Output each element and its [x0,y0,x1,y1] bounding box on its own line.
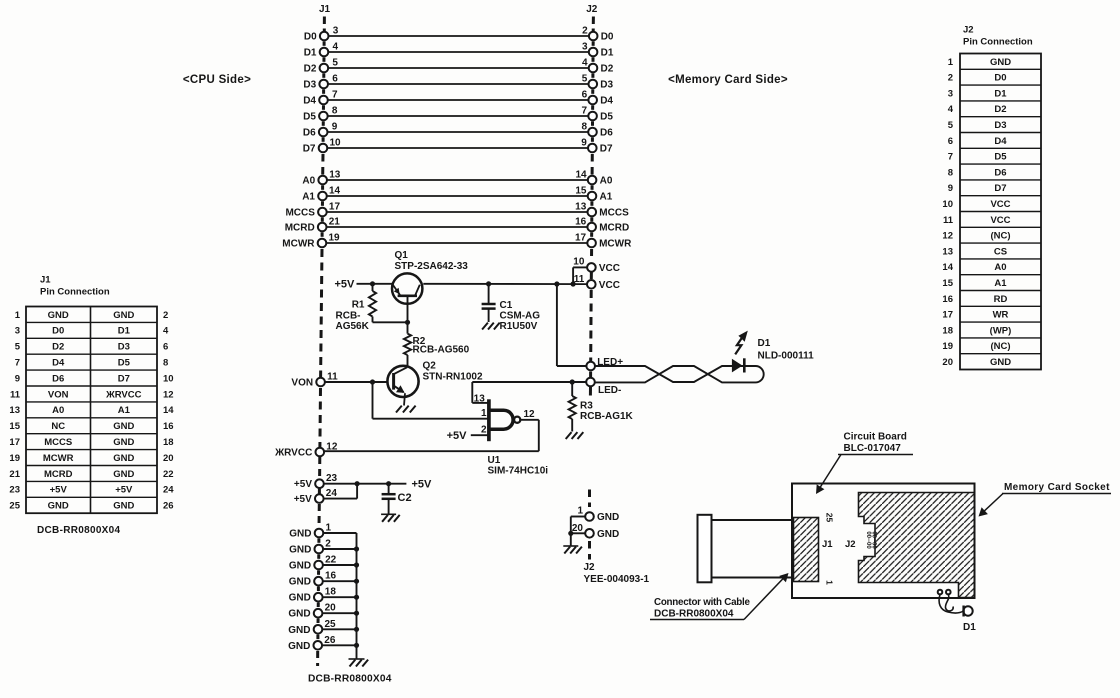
label Memory Card Socket with leader [979,482,1112,517]
svg-text:20: 20 [325,603,337,614]
svg-text:C1: C1 [500,300,513,311]
J2 connector GND pin 1 [571,490,619,547]
svg-text:A0: A0 [52,405,64,416]
svg-text:Memory Card Socket: Memory Card Socket [1004,482,1110,493]
svg-text:A1: A1 [118,405,131,416]
svg-text:6: 6 [163,342,168,353]
J2 dashed connector line segment [591,121,594,126]
J1 dashed connector line segment [322,89,325,94]
svg-text:MCCS: MCCS [44,437,72,448]
svg-text:D5: D5 [600,112,613,123]
J2 dashed connector line segment [592,41,595,46]
svg-text:6: 6 [948,136,953,147]
svg-text:D1: D1 [994,88,1007,99]
svg-text:D7: D7 [303,144,316,155]
wire +5V to U1 pin 2 [471,425,488,436]
svg-text:GND: GND [113,501,134,512]
svg-text:J1: J1 [40,275,51,286]
svg-text:9: 9 [581,138,587,149]
transistor Q2 STN-RN1002 (NPN) [387,361,483,398]
J2 LED+ pin [586,357,623,370]
main rail Q1 to VCC pins [423,281,587,286]
svg-text:8: 8 [581,122,587,133]
svg-text:D1: D1 [118,326,131,337]
svg-text:1: 1 [948,57,954,68]
svg-text:17: 17 [329,202,341,213]
wire D7: J1 pin 10 to J2 pin 9 [303,138,613,155]
svg-text:D5: D5 [994,152,1007,163]
label J2 YEE-004093-1 [584,562,650,585]
capacitor C2 [382,484,412,515]
svg-text:00--00: 00--00 [865,531,871,549]
svg-text:20: 20 [163,453,174,464]
svg-text:22: 22 [325,555,337,566]
svg-text:VON: VON [291,378,313,389]
svg-text:15: 15 [575,186,587,197]
svg-text:D7: D7 [600,144,613,155]
J2 pin connection table [942,25,1041,370]
svg-text:7: 7 [15,358,20,369]
wire MCCS: J1 pin 17 to J2 pin 13 [285,202,629,219]
resistor R2 RCB-AG560 [404,322,470,367]
svg-text:D4: D4 [600,96,613,107]
svg-text:11: 11 [10,389,21,400]
svg-text:12: 12 [942,231,953,242]
J1 dashed connector line segment [322,57,325,62]
svg-text:12: 12 [163,389,174,400]
label 25 (rotated) at board J1 [825,513,835,523]
svg-text:NLD-000111: NLD-000111 [758,350,815,361]
svg-text:11: 11 [574,274,585,285]
J1 dashed segment MCWR-VON [321,249,322,377]
ribbon cable connector bar [698,515,712,583]
svg-text:26: 26 [324,635,336,646]
svg-text:GND: GND [48,501,69,512]
J2 dashed connector line segment [590,217,593,221]
svg-text:13: 13 [575,202,587,213]
J1 pin connection table [9,275,174,514]
svg-text:D0: D0 [994,73,1006,84]
svg-text:8: 8 [332,106,338,117]
svg-text:STP-2SA642-33: STP-2SA642-33 [395,261,469,272]
ground below C2 [381,514,400,522]
svg-text:GND: GND [597,529,619,540]
svg-text:C2: C2 [398,492,412,504]
svg-text:MCRD: MCRD [285,223,315,234]
caption CPU side [183,74,251,86]
svg-text:VCC: VCC [599,280,620,291]
svg-text:25: 25 [825,513,835,523]
J2 single dash between LED pins [589,372,592,378]
J1 dashed connector line segment [317,619,320,625]
svg-text:GND: GND [597,512,619,523]
svg-text:4: 4 [333,42,339,53]
svg-text:D0: D0 [304,32,317,43]
wire rail to LED+ pin [557,284,587,366]
svg-text:7: 7 [332,90,338,101]
wire D6: J1 pin 9 to J2 pin 8 [303,122,613,139]
svg-text:D3: D3 [303,80,316,91]
svg-text:13: 13 [9,405,20,416]
wire D0: J1 pin 3 to J2 pin 2 [304,26,614,43]
svg-text:ЖRVCC: ЖRVCC [274,448,312,459]
svg-text:WR: WR [993,310,1009,321]
D1 lead pins on board [938,590,951,595]
svg-text:11: 11 [943,215,954,226]
svg-text:CS: CS [994,246,1007,257]
resistor R1 RCB-AG56K [336,284,408,332]
label DCB-RR0800X04 under J1 [308,674,392,685]
svg-text:VCC: VCC [990,199,1010,210]
svg-text:D2: D2 [994,104,1006,115]
svg-text:19: 19 [329,233,341,244]
svg-text:A0: A0 [600,176,613,187]
svg-text:9: 9 [948,183,953,194]
svg-text:22: 22 [163,469,174,480]
svg-text:14: 14 [163,405,174,416]
svg-text:18: 18 [163,437,174,448]
svg-text:26: 26 [163,501,174,512]
svg-text:GND: GND [990,357,1011,368]
label Connector with Cable DCB-RR0800X04 with leader [650,573,789,620]
svg-text:D0: D0 [601,32,614,43]
svg-text:J2: J2 [584,562,596,573]
node VON: J1 pin 11 [291,372,388,389]
J1 +5V pin 23 [294,473,406,490]
J2 dashed connector line segment [590,232,593,237]
connector J1 top label [319,4,331,31]
svg-text:D6: D6 [600,128,613,139]
connector J1 block on board (hatched) [794,518,819,582]
wire Q1 collector down to R1/R2 node [405,297,410,325]
wire VON to U1 pin 1 [373,382,488,419]
svg-text:17: 17 [942,310,953,321]
svg-text:16: 16 [575,217,587,228]
svg-text:14: 14 [575,170,587,181]
svg-text:J2: J2 [963,25,974,36]
svg-text:4: 4 [582,58,588,69]
wire MCRD: J1 pin 21 to J2 pin 16 [285,217,630,234]
op U1 pin 13 wire from LED- net [472,382,487,405]
svg-text:3: 3 [948,88,953,99]
svg-text:D4: D4 [52,358,65,369]
J2 dashed connector line segment [590,201,593,206]
svg-text:R1U50V: R1U50V [500,321,538,332]
LED D1 NLD-000111 diode symbol [732,338,814,373]
svg-text:16: 16 [942,294,953,305]
svg-text:YEE-004093-1: YEE-004093-1 [584,574,650,585]
J1 GND pin 20 [288,603,359,620]
svg-text:A1: A1 [600,192,613,203]
svg-text:NC: NC [51,421,65,432]
ribbon cable top edge [712,519,793,521]
svg-text:D3: D3 [994,120,1006,131]
label +5V net right of C2 [412,478,433,490]
wire MCWR: J1 pin 19 to J2 pin 17 [282,233,632,250]
wire D2: J1 pin 5 to J2 pin 4 [304,58,614,75]
svg-text:D0: D0 [52,326,64,337]
svg-text:GND: GND [289,577,311,588]
svg-text:ЖRVCC: ЖRVCC [105,389,141,400]
J2 dashed segment MCWR-VCC [590,249,593,261]
J2 dashed connector line segment [592,57,595,62]
svg-text:6: 6 [332,74,338,85]
J1 GND pin 16 [289,571,359,588]
ground for J2 GND pins [563,546,582,554]
svg-text:3: 3 [15,326,20,337]
svg-text:13: 13 [329,170,341,181]
wire D1: J1 pin 4 to J2 pin 3 [304,42,614,59]
svg-text:Pin Connection: Pin Connection [963,37,1033,48]
svg-text:13: 13 [942,246,953,257]
svg-text:D7: D7 [118,373,130,384]
svg-text:9: 9 [15,373,20,384]
J2 dashed connector line segment [591,185,594,190]
svg-text:4: 4 [948,104,954,115]
svg-text:24: 24 [163,485,174,496]
svg-text:Pin Connection: Pin Connection [40,287,110,298]
svg-text:D4: D4 [303,96,316,107]
svg-text:AG56K: AG56K [336,321,370,332]
label D1 on board [963,622,976,633]
J2 LED- pin [586,378,621,396]
svg-text:A0: A0 [994,262,1006,273]
svg-text:2: 2 [163,310,168,321]
ribbon cable bottom edge [712,577,793,579]
svg-text:Connector with Cable: Connector with Cable [654,597,750,608]
svg-text:GND: GND [288,625,310,636]
svg-text:U1: U1 [488,455,501,466]
svg-text:<Memory Card Side>: <Memory Card Side> [668,74,788,86]
svg-text:D1: D1 [963,622,976,633]
svg-text:4: 4 [163,326,169,337]
svg-text:1: 1 [326,523,332,534]
ground below Q2 [396,406,416,413]
label +5V at Q1 emitter [335,278,356,290]
LED D1 package on board [963,606,972,617]
svg-text:D6: D6 [52,373,64,384]
svg-text:GND: GND [288,609,310,620]
wire D4: J1 pin 7 to J2 pin 6 [303,90,613,107]
svg-text:+5V: +5V [50,485,68,496]
J2 single dash between VCC pins [590,272,593,280]
J1 dashed segment RVCC-5V [318,457,321,479]
svg-text:VCC: VCC [990,215,1010,226]
J2 VCC pin 11 [574,274,620,291]
svg-text:8: 8 [163,358,168,369]
resistor R3 RCB-AG1K [569,382,634,432]
svg-text:D5: D5 [303,112,316,123]
J1 dashed connector line segment [317,538,320,543]
svg-text:GND: GND [288,641,310,652]
svg-text:9: 9 [332,122,338,133]
svg-text:BLC-017047: BLC-017047 [844,443,902,454]
J1 GND pin 2 [289,539,359,556]
svg-text:2: 2 [481,425,487,436]
ground below C1 [482,323,500,330]
svg-text:GND: GND [990,57,1011,68]
svg-text:14: 14 [942,262,953,273]
J1 dashed connector line segment [322,73,325,78]
svg-text:GND: GND [289,545,311,556]
svg-text:25: 25 [9,501,20,512]
J1 dashed connector line segment [321,201,324,206]
svg-text:GND: GND [113,421,134,432]
svg-text:19: 19 [9,453,20,464]
svg-text:18: 18 [325,587,337,598]
wire A1: J1 pin 14 to J2 pin 15 [302,186,613,203]
J1 dashed connector line segment [321,217,324,221]
svg-text:1: 1 [481,408,487,419]
svg-text:D1: D1 [758,338,771,349]
svg-text:VON: VON [48,389,69,400]
svg-text:J2: J2 [845,539,856,550]
svg-text:R3: R3 [580,401,593,412]
svg-text:MCCS: MCCS [285,208,315,219]
svg-text:24: 24 [326,488,338,499]
J1 dashed connector line segment [322,105,325,110]
wire U1 output pin 12 to RVCC net [520,409,539,451]
svg-text:D2: D2 [304,64,317,75]
J1 GND pin 18 [289,587,360,604]
svg-text:6: 6 [582,90,588,101]
J1 dashed connector line segment [316,635,319,640]
GND bus wire [356,533,358,659]
svg-text:7: 7 [948,152,953,163]
svg-text:12: 12 [524,409,536,420]
wire +5V to Q1 emitter [357,281,393,286]
svg-text:A0: A0 [302,176,315,187]
svg-text:10: 10 [330,138,342,149]
svg-text:CSM-AG: CSM-AG [500,310,541,321]
svg-text:D6: D6 [303,128,316,139]
svg-text:3: 3 [582,42,588,53]
caption Memory Card side [668,74,788,86]
svg-text:J1: J1 [822,539,833,550]
svg-text:MCRD: MCRD [599,223,629,234]
svg-text:A1: A1 [994,278,1007,289]
label U1 pin 1 [481,408,487,419]
svg-text:+5V: +5V [294,494,312,505]
svg-text:5: 5 [948,120,954,131]
svg-text:MCWR: MCWR [282,239,315,250]
J1 dashed connector line segment [317,587,320,592]
svg-text:DCB-RR0800X04: DCB-RR0800X04 [654,609,734,620]
svg-text:23: 23 [326,473,338,484]
J1 dashed connector line segment [317,554,320,559]
memory card socket (hatched) [859,493,975,598]
circuit board outline [792,484,975,599]
svg-text:D6: D6 [994,167,1006,178]
svg-text:7: 7 [582,106,588,117]
J1 GND pin 1 [289,523,356,540]
label J1 on board [822,539,833,550]
J1 single dash between +5V pins [318,489,321,494]
svg-text:J1: J1 [319,4,331,15]
svg-text:D4: D4 [994,136,1007,147]
LED light emission arrow [735,331,748,355]
svg-text:MCWR: MCWR [43,453,74,464]
J2 dashed connector line segment [591,137,594,142]
transistor Q1 STP-2SA642-33 (PNP) [392,250,468,304]
svg-text:R1: R1 [352,300,365,311]
svg-text:MCWR: MCWR [599,239,632,250]
svg-text:RD: RD [994,294,1008,305]
svg-text:D3: D3 [118,342,130,353]
J1 +5V pin 24 [294,484,357,505]
J1 dashed connector line segment [321,232,324,237]
svg-text:GND: GND [48,310,69,321]
wire A0: J1 pin 13 to J2 pin 14 [302,170,612,187]
svg-text:A1: A1 [302,192,315,203]
svg-text:21: 21 [329,217,341,228]
svg-text:17: 17 [9,437,20,448]
svg-text:16: 16 [325,571,337,582]
svg-text:D5: D5 [118,358,131,369]
svg-text:GND: GND [289,561,311,572]
svg-text:21: 21 [9,469,20,480]
capacitor C1 CSM-AG R1U50V [482,284,541,332]
svg-text:1: 1 [15,310,21,321]
svg-text:00--00: 00--00 [871,531,877,549]
twisted pair cable to LED D1 [595,366,764,382]
label +5V at U1 pin 2 [447,430,468,442]
svg-text:SIM-74HC10i: SIM-74HC10i [488,466,549,477]
svg-text:(NC): (NC) [990,341,1010,352]
svg-text:Q2: Q2 [423,361,437,372]
svg-text:15: 15 [942,278,953,289]
svg-text:18: 18 [942,325,953,336]
svg-text:13: 13 [474,394,486,405]
svg-text:D1: D1 [304,48,317,59]
svg-text:11: 11 [327,372,338,383]
svg-text:RCB-AG1K: RCB-AG1K [580,411,634,422]
J1 GND pin 22 [289,555,359,572]
svg-text:Circuit Board: Circuit Board [844,432,907,443]
svg-text:3: 3 [333,26,339,37]
J1 GND pin 26 [288,635,359,652]
svg-text:5: 5 [15,342,21,353]
svg-text:MCCS: MCCS [599,208,629,219]
svg-text:Q1: Q1 [395,250,409,261]
svg-text:VCC: VCC [599,263,620,274]
label 1 (rotated) at board J1 [825,580,835,585]
svg-text:MCRD: MCRD [44,469,73,480]
J2 dash below LEDminus [589,387,592,396]
J2 dashed segment VCC-LEDplus [589,290,593,361]
J1 dashed segment VON-RVCC [318,388,322,447]
svg-text:RCB-AG560: RCB-AG560 [413,345,470,356]
svg-text:(NC): (NC) [990,231,1010,242]
svg-text:GND: GND [113,453,134,464]
wire U1 pin13 / R3 to LED- pin [472,379,586,384]
svg-text:(WP): (WP) [990,325,1012,336]
svg-text:D2: D2 [601,64,614,75]
J1 dashed connector line segment [317,603,320,608]
svg-text:15: 15 [9,421,20,432]
svg-text:D1: D1 [601,48,614,59]
J2 dashed connector line segment [591,73,594,78]
svg-text:LED-: LED- [598,385,621,396]
svg-text:14: 14 [329,186,341,197]
J1 GND pin 25 [288,619,359,636]
label Circuit Board BLC-017047 with leader [816,432,913,495]
svg-text:23: 23 [9,485,20,496]
svg-text:D7: D7 [994,183,1006,194]
J2 dashed segment D7-A0 [591,154,594,175]
svg-text:DCB-RR0800X04: DCB-RR0800X04 [37,525,121,536]
svg-text:+5V: +5V [294,479,312,490]
